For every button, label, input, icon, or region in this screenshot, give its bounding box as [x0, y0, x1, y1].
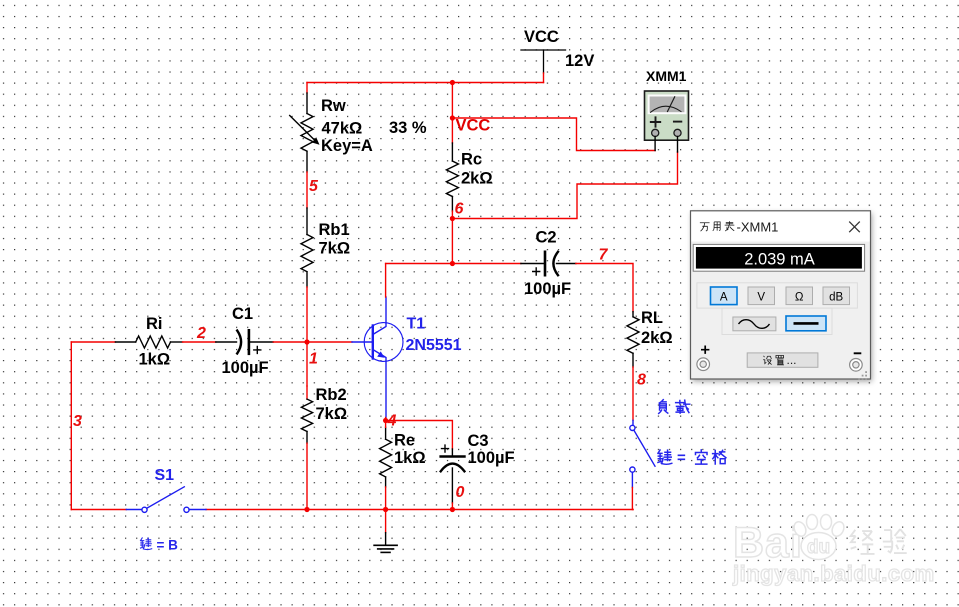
button Ohm: [786, 287, 813, 305]
svg-text:1kΩ: 1kΩ: [394, 449, 426, 467]
svg-text:2kΩ: 2kΩ: [461, 170, 493, 188]
wire Ri left: [71, 341, 115, 343]
minus terminal label: [854, 352, 862, 354]
wire node 5 segment: [306, 172, 308, 208]
capacitor C3: [441, 445, 465, 503]
button V: [748, 287, 775, 305]
wire C1 to base node 1: [273, 341, 352, 343]
svg-text:2kΩ: 2kΩ: [641, 329, 673, 347]
svg-text:Bai: Bai: [733, 519, 803, 567]
button DC selected: [786, 316, 826, 331]
transistor T1 2N5551: [352, 323, 403, 362]
wire C2 row left: [386, 263, 521, 265]
node 4 junction: [383, 418, 388, 423]
display: [693, 244, 864, 271]
capacitor C2: [521, 252, 576, 275]
terminal plus: [697, 358, 710, 371]
wire collector red to C2 row: [385, 264, 387, 298]
node 6 junction: [450, 216, 455, 221]
node 1 junction: [304, 339, 309, 344]
svg-text:47kΩ: 47kΩ: [322, 120, 363, 138]
switch S1: [126, 487, 206, 513]
svg-text:C2: C2: [536, 229, 557, 247]
wire left input corner node 3: [70, 342, 72, 510]
button sine: [733, 317, 776, 331]
wire Rw top lead red: [306, 83, 308, 94]
wire multimeter plus path: [452, 118, 655, 151]
wire emitter blue: [385, 361, 387, 417]
wire multimeter minus path: [452, 152, 677, 219]
svg-text:A: A: [720, 292, 728, 304]
wire Rc bottom node 6: [451, 211, 453, 264]
label 键 = 空格: [658, 450, 726, 464]
button dB: [823, 287, 850, 305]
svg-text:12V: 12V: [565, 52, 594, 70]
wire node4 to C3: [386, 421, 453, 450]
svg-text:Re: Re: [394, 432, 415, 450]
svg-text:Rb1: Rb1: [319, 221, 350, 239]
svg-text:RL: RL: [641, 309, 663, 327]
resistor Rb2: [301, 386, 312, 443]
svg-text:1kΩ: 1kΩ: [139, 351, 171, 369]
title 万用表-XMM1: [700, 221, 734, 231]
svg-text:C3: C3: [468, 432, 489, 450]
svg-text:XMM1: XMM1: [646, 68, 687, 84]
wire C3 bottom to bus: [451, 503, 453, 510]
wire Re bottom to bus: [385, 487, 387, 510]
svg-text:6: 6: [455, 201, 464, 218]
plus terminal label: [701, 346, 709, 354]
svg-text:100µF: 100µF: [222, 359, 269, 377]
multimeter XMM1 icon: [645, 91, 689, 140]
svg-text:33 %: 33 %: [389, 119, 427, 137]
label 键 = B: [140, 538, 151, 550]
svg-text:Rb2: Rb2: [316, 386, 347, 404]
svg-text:0: 0: [456, 484, 465, 501]
node C2-row junction: [450, 261, 455, 266]
wire emitter red to node 4: [385, 418, 387, 421]
svg-text:V: V: [757, 292, 765, 304]
svg-text:7: 7: [599, 247, 609, 264]
wire switch to bus right corner: [631, 487, 634, 509]
svg-text:7kΩ: 7kΩ: [319, 240, 351, 258]
svg-text:8: 8: [637, 372, 646, 389]
svg-text:1: 1: [309, 351, 318, 368]
svg-text:du: du: [807, 537, 830, 558]
svg-text:7kΩ: 7kΩ: [316, 405, 348, 423]
resistor Rc: [451, 83, 453, 144]
wire C2 to RL: [576, 264, 633, 312]
resize grip: [858, 371, 867, 380]
node Rb2-bus junction: [304, 507, 309, 512]
svg-text:=: =: [677, 450, 686, 467]
svg-text:jingyan.baidu.com: jingyan.baidu.com: [732, 561, 935, 586]
wire XMM1 plus stub: [654, 137, 656, 151]
svg-text:S1: S1: [155, 467, 175, 484]
power VCC symbol: [521, 50, 566, 73]
svg-text:5: 5: [309, 178, 319, 195]
svg-text:Rw: Rw: [321, 97, 346, 115]
svg-text:2.039 mA: 2.039 mA: [744, 250, 815, 268]
potentiometer Rw: [290, 93, 315, 172]
svg-text:-XMM1: -XMM1: [737, 219, 779, 234]
svg-text:C1: C1: [232, 305, 253, 323]
close X: [849, 222, 860, 233]
terminal minus: [850, 359, 863, 372]
svg-text:Key=A: Key=A: [321, 137, 373, 155]
svg-text:VCC: VCC: [456, 117, 491, 135]
svg-text:Rc: Rc: [461, 151, 482, 169]
svg-text:100µF: 100µF: [468, 449, 515, 467]
svg-text:= B: = B: [157, 538, 179, 553]
svg-text:100µF: 100µF: [524, 280, 571, 298]
switch space key: [630, 420, 655, 487]
svg-text:2: 2: [196, 325, 206, 342]
button 设置...: [747, 353, 818, 367]
wire XMM1 minus stub: [677, 137, 679, 153]
wire Rb2 bottom to bus: [306, 443, 308, 509]
button A selected: [711, 287, 738, 305]
wire top rail: [307, 82, 544, 84]
svg-text:...: ...: [787, 353, 797, 367]
resistor Ri: [115, 336, 182, 348]
resistor Re: [380, 427, 392, 487]
node Re-bus junction: [383, 507, 388, 512]
svg-text:VCC: VCC: [524, 28, 559, 46]
ground: [385, 510, 387, 533]
wire RL bottom node 8: [632, 367, 634, 420]
bottom bus wire: [71, 509, 126, 511]
group boxes: [697, 283, 858, 308]
label 负载: [659, 400, 690, 414]
node top rail junction: [450, 80, 455, 85]
capacitor C1: [216, 330, 273, 354]
wire node 2: [183, 341, 216, 343]
svg-text:T1: T1: [407, 316, 426, 333]
svg-text:Ω: Ω: [795, 292, 804, 304]
wire collector blue: [385, 297, 387, 323]
resistor RL: [627, 312, 639, 367]
svg-text:Ri: Ri: [146, 315, 163, 333]
wire VCC stem red: [543, 73, 545, 83]
svg-text:3: 3: [73, 413, 82, 430]
svg-text:dB: dB: [829, 292, 843, 304]
wire Rb1 to node 1: [306, 287, 308, 386]
node C3-bus junction: [450, 507, 455, 512]
resistor Rb1: [301, 208, 313, 287]
svg-text:2N5551: 2N5551: [406, 337, 462, 354]
